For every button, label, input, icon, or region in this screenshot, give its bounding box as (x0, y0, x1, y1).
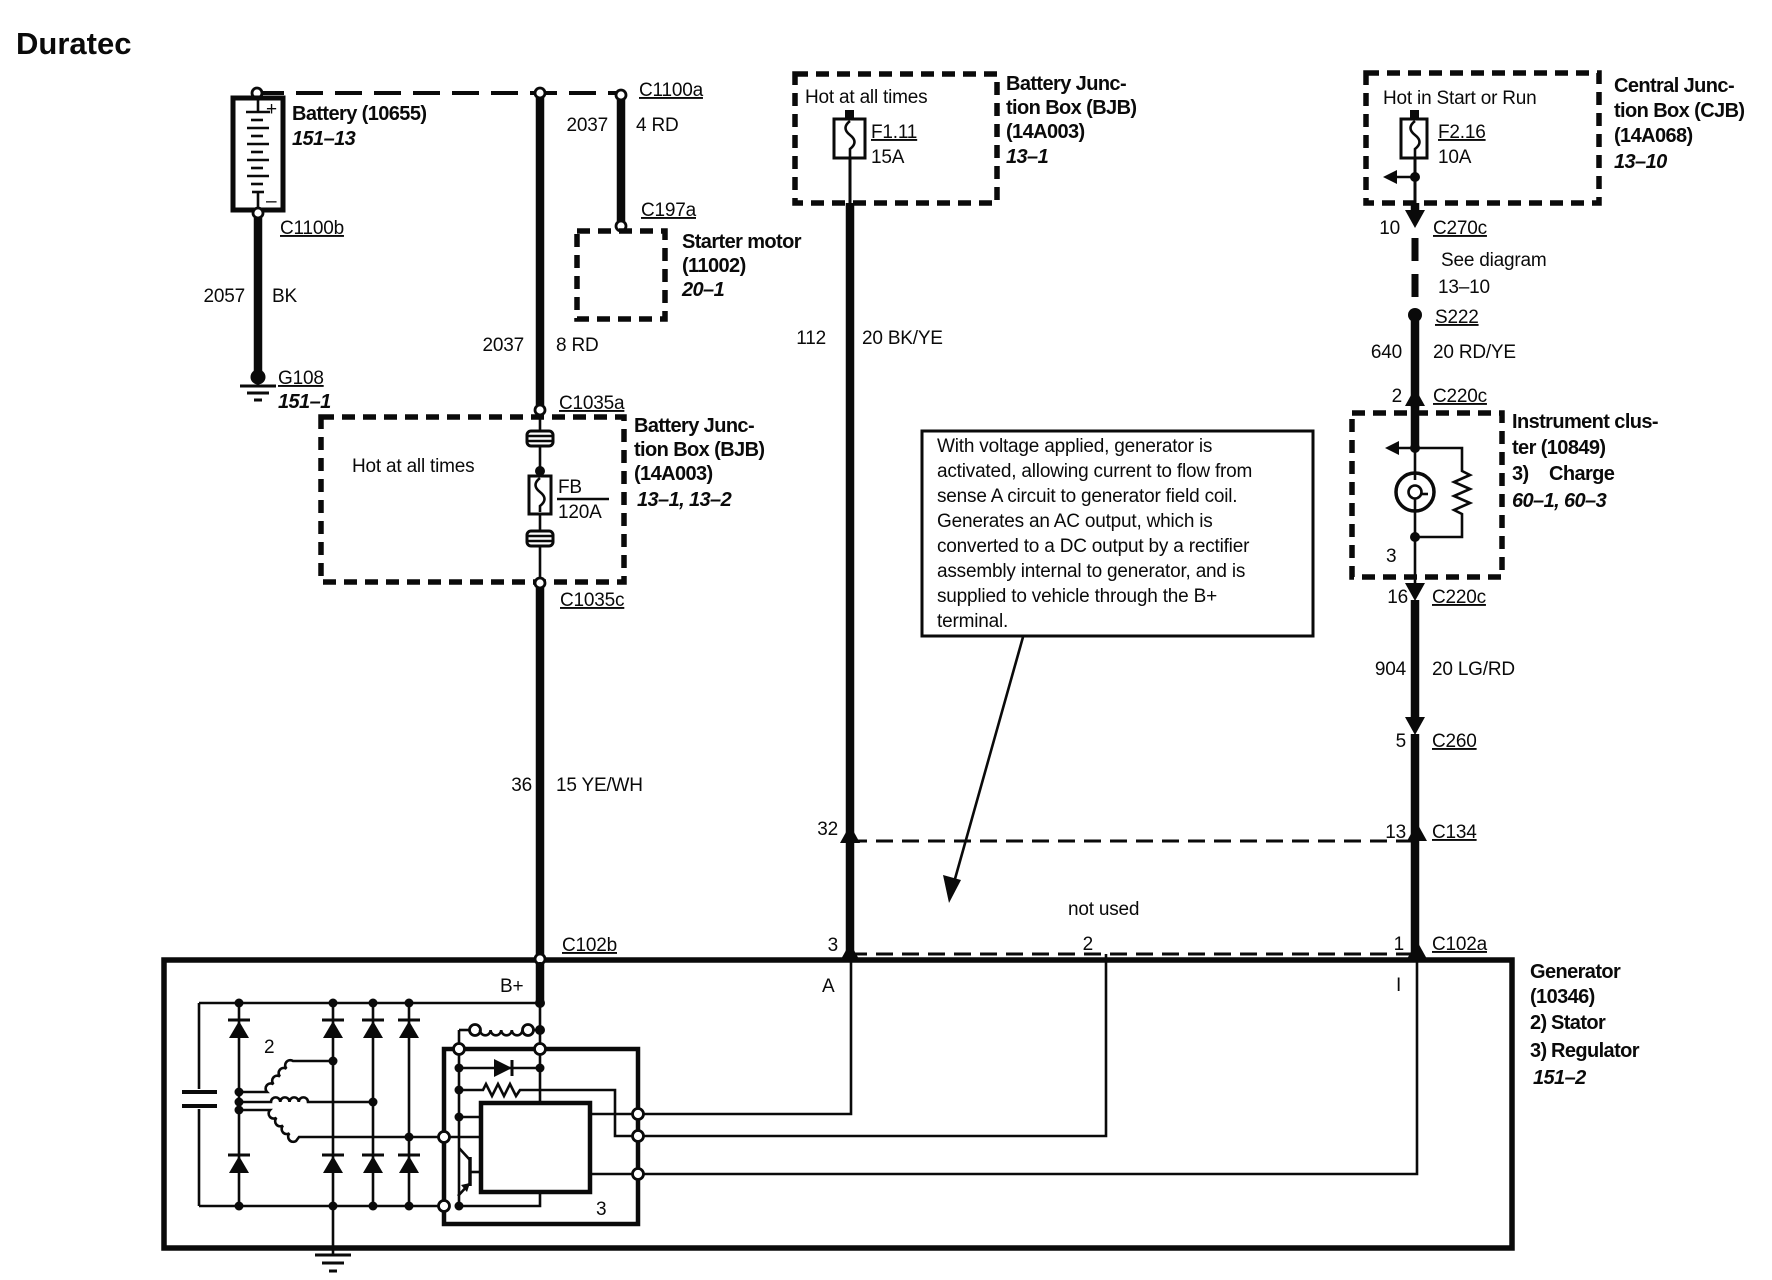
svg-text:C220c: C220c (1432, 587, 1486, 608)
wire: B+ feed from bus down to C1035a, circuit 2037 8 RD (536, 93, 545, 405)
regulator outer box (444, 1049, 638, 1224)
node: C197a terminal (open circle) (616, 221, 626, 231)
wire: F1.11 down to generator A terminal, circuit 112 20 BK/YE (846, 203, 855, 957)
svg-text:151–2: 151–2 (1533, 1067, 1586, 1089)
rectifier diode column 4 (398, 1003, 420, 1206)
svg-text:tion Box (BJB): tion Box (BJB) (1006, 97, 1136, 119)
svg-text:F2.16: F2.16 (1438, 122, 1486, 143)
svg-text:Battery Junc-: Battery Junc- (1006, 73, 1126, 95)
connector arrow at generator A terminal (pin 3) (840, 943, 860, 961)
wire: stator sense into regulator to IC (444, 1136, 481, 1139)
node: IC feed junction (455, 1113, 464, 1122)
svg-text:15A: 15A (871, 147, 905, 168)
connector chevron at pin 32 on A wire (840, 825, 860, 843)
svg-text:2037: 2037 (483, 335, 524, 356)
battery (10655) symbol (233, 98, 283, 212)
svg-text:3: 3 (828, 935, 838, 956)
svg-text:5: 5 (1396, 731, 1406, 752)
node: open circle on regulator top edge (B+) (535, 1044, 546, 1055)
regulator internal diode (459, 1059, 540, 1077)
wire: CJB to C270c with connector arrow (1411, 203, 1420, 212)
wire: B+ vertical inside generator (539, 962, 542, 1103)
node: open circle on regulator left edge (ground) (439, 1201, 450, 1212)
svg-text:2): 2) (1530, 1012, 1547, 1034)
svg-text:ter (10849): ter (10849) (1512, 437, 1605, 459)
svg-text:13–1, 13–2: 13–1, 13–2 (637, 489, 732, 511)
svg-text:20 RD/YE: 20 RD/YE (1433, 342, 1516, 363)
svg-text:tion Box (CJB): tion Box (CJB) (1614, 100, 1744, 122)
node: junction of B+ feed on dashed bus (open circle) (535, 88, 545, 98)
svg-text:G108: G108 (278, 368, 324, 389)
svg-text:1: 1 (1394, 934, 1404, 955)
svg-text:Central Junc-: Central Junc- (1614, 75, 1734, 97)
svg-text:3): 3) (1512, 463, 1529, 485)
battery junction box (BJB) with fuse FB (left) : dashed box (321, 417, 624, 582)
svg-text:Starter motor: Starter motor (682, 231, 802, 253)
svg-text:C1100b: C1100b (280, 218, 344, 239)
svg-text:112: 112 (796, 328, 826, 349)
svg-text:Generator: Generator (1530, 961, 1621, 983)
svg-text:20–1: 20–1 (681, 279, 725, 301)
svg-text:8 RD: 8 RD (556, 335, 599, 356)
svg-text:supplied to vehicle through th: supplied to vehicle through the B+ (937, 586, 1217, 607)
svg-text:C270c: C270c (1433, 218, 1487, 239)
svg-text:151–1: 151–1 (278, 391, 331, 413)
node: square terminal above fuse F2.16 (1410, 110, 1419, 119)
svg-text:tion Box (BJB): tion Box (BJB) (634, 439, 764, 461)
regulator IC box (481, 1103, 590, 1192)
wire: dashed segment "See diagram 13-10" (1412, 238, 1419, 310)
svg-text:BK: BK (272, 286, 297, 307)
connector capsule above fuse FB (527, 431, 553, 446)
svg-text:C102a: C102a (1432, 934, 1488, 955)
node: coil 3 to diode column 4 (405, 1133, 414, 1142)
svg-text:C197a: C197a (641, 200, 697, 221)
rectifier diode column 2 (322, 1003, 344, 1206)
fuse FB 120A (529, 476, 551, 514)
svg-text:Duratec: Duratec (16, 26, 131, 61)
svg-text:151–13: 151–13 (292, 128, 356, 150)
wire: top battery positive dashed bus (257, 91, 621, 95)
svg-text:assembly internal to generator: assembly internal to generator, and is (937, 561, 1245, 582)
wire: C1100a to starter motor, circuit 2037 4 RD (617, 95, 626, 221)
node: splice S222 (1408, 308, 1422, 322)
node: resistor row junction (455, 1086, 464, 1095)
svg-text:10A: 10A (1438, 147, 1472, 168)
wire: lamp down through cluster edge (1414, 537, 1417, 584)
connector capsule below fuse FB (527, 531, 553, 546)
regulator internal resistor (459, 1084, 633, 1136)
svg-text:120A: 120A (558, 502, 602, 523)
node: open circle on regulator top edge (field) (454, 1044, 465, 1055)
node: stator neutral junctions (235, 1088, 244, 1097)
wire: fuse F1.11 to box edge (849, 158, 852, 203)
node: C1100a terminal (open circle) (616, 90, 626, 100)
svg-text:C260: C260 (1432, 731, 1477, 752)
svg-text:FB: FB (558, 477, 582, 498)
svg-text:Battery (10655): Battery (10655) (292, 103, 426, 125)
stator winding coil 2 (middle phase) (239, 1097, 373, 1102)
wire: fuse F2.16 to junction and box edge (1414, 158, 1417, 203)
svg-text:C1035c: C1035c (560, 590, 624, 611)
wire: stub with left arrow inside CJB (1396, 176, 1415, 179)
svg-text:13–10: 13–10 (1438, 277, 1490, 298)
svg-text:C134: C134 (1432, 822, 1477, 843)
connector arrow C220c (pin 2) into instrument cluster (1405, 388, 1425, 406)
wire: C1035c down to generator B+ terminal, circuit 36 15 YE/WH (536, 588, 545, 1001)
stator winding coil 1 (top phase) (239, 1060, 333, 1092)
svg-text:20 BK/YE: 20 BK/YE (862, 328, 943, 349)
central junction box (CJB) with fuse F2.16 : dashed box (1366, 73, 1599, 203)
svg-text:(10346): (10346) (1530, 986, 1595, 1008)
svg-text:C102b: C102b (562, 935, 617, 956)
svg-text:3: 3 (596, 1199, 606, 1220)
svg-text:C220c: C220c (1433, 386, 1487, 407)
node: bottom rail junctions (235, 1202, 244, 1211)
node: dot above fuse FB (535, 466, 545, 476)
node: C102b terminal at generator (open circle) (535, 954, 545, 964)
charge indicator lamp (1396, 448, 1434, 537)
node: C1035c connector (open circle) (535, 578, 545, 588)
wire: C260 down to C134 (1411, 734, 1420, 958)
svg-text:2: 2 (1083, 934, 1093, 955)
wire: internal bottom rail (199, 1205, 444, 1208)
wire: dashed line pin 32 to pin 13 C134 (850, 840, 1415, 843)
svg-text:–: – (266, 191, 277, 212)
svg-text:C1100a: C1100a (639, 80, 704, 101)
svg-text:With voltage applied, generato: With voltage applied, generator is (937, 436, 1212, 457)
rectifier diode column 1 (228, 1003, 250, 1206)
wire: dashed line generator pins 3 / 2 / 1 (850, 953, 1415, 956)
svg-text:F1.11: F1.11 (871, 122, 917, 143)
instrument cluster (10849) dashed box (1352, 413, 1502, 577)
svg-text:2: 2 (1392, 386, 1402, 407)
svg-text:3): 3) (1530, 1040, 1547, 1062)
node: field coil to B+ vertical (535, 1025, 545, 1035)
svg-text:20 LG/RD: 20 LG/RD (1432, 659, 1515, 680)
svg-text:not used: not used (1068, 899, 1139, 920)
node: open circle on regulator right edge (I) (633, 1169, 644, 1180)
node: junction below F2.16 (1410, 172, 1420, 182)
node: top rail junctions (235, 999, 244, 1008)
svg-text:36: 36 (511, 775, 532, 796)
note box: generator operation description (922, 431, 1313, 636)
svg-text:3: 3 (1386, 546, 1396, 567)
svg-text:Instrument clus-: Instrument clus- (1512, 411, 1658, 433)
node: junction at top of charge lamp (1410, 443, 1420, 453)
node: open circle on regulator left edge (stator sense) (439, 1132, 450, 1143)
wire: stub with left arrow inside cluster (1398, 447, 1415, 450)
svg-text:Hot at all times: Hot at all times (352, 456, 474, 477)
node: battery positive terminal (open circle) (252, 88, 262, 98)
rotor field coil (459, 1025, 540, 1049)
svg-text:Generates an AC output, which: Generates an AC output, which is (937, 511, 1213, 532)
svg-text:16: 16 (1387, 587, 1408, 608)
svg-text:10: 10 (1379, 218, 1400, 239)
svg-text:640: 640 (1371, 342, 1402, 363)
svg-text:(14A003): (14A003) (1006, 121, 1085, 143)
svg-text:Hot in Start or Run: Hot in Start or Run (1383, 88, 1537, 109)
wire: regulator A output to A terminal (590, 962, 851, 1114)
svg-text:A: A (822, 976, 835, 997)
svg-text:2057: 2057 (204, 286, 245, 307)
wire: generator internal ground stub (332, 1206, 335, 1254)
starter motor (11002) dashed box (577, 231, 665, 319)
ground symbol below generator (315, 1255, 351, 1271)
svg-text:sense A circuit to generator f: sense A circuit to generator field coil. (937, 486, 1237, 507)
wire: regulator IC top-left feed (459, 1116, 481, 1119)
svg-text:904: 904 (1375, 659, 1407, 680)
wire: internal top rail to B+ (199, 1002, 540, 1005)
stator winding coil 3 (bottom phase) (239, 1110, 444, 1142)
svg-text:Regulator: Regulator (1551, 1040, 1640, 1062)
wire: battery negative to ground, circuit 2057 BK (254, 218, 263, 374)
node: open circle on regulator right edge (stator tap) (633, 1131, 644, 1142)
wire: regulator internal left vertical (458, 1052, 461, 1206)
svg-text:Hot at all times: Hot at all times (805, 87, 927, 108)
wire: capsule to fuse FB (539, 415, 542, 432)
svg-text:See diagram: See diagram (1441, 250, 1547, 271)
generator (10346) box (164, 960, 1512, 1248)
wire: into cluster to junction (1411, 404, 1420, 448)
rectifier diode column 3 (362, 1003, 384, 1206)
svg-text:(11002): (11002) (682, 255, 746, 277)
svg-text:60–1, 60–3: 60–1, 60–3 (1512, 490, 1607, 512)
wire: regulator I line to I terminal (590, 962, 1417, 1174)
wire: pin 2 tick into generator (1105, 954, 1108, 962)
note arrow from note box to "not used" area (953, 637, 1023, 886)
wire: regulator stator tap to terminal 2 (not used) (638, 962, 1106, 1136)
connector arrow at generator I terminal (pin 1) C102a (1407, 941, 1427, 959)
svg-text:+: + (266, 99, 277, 120)
connector arrow C134 (pin 13) (1407, 823, 1427, 841)
node: diode row junctions (455, 1064, 464, 1073)
node: coil 2 to diode column 3 (369, 1098, 378, 1107)
svg-text:converted to a DC output by a: converted to a DC output by a rectifier (937, 536, 1250, 557)
wire: S222 down to C220c, circuit 640 20 RD/YE (1411, 315, 1420, 407)
svg-text:S222: S222 (1435, 307, 1479, 328)
wire: IC bottom stub to ground rail (459, 1192, 540, 1206)
svg-text:15 YE/WH: 15 YE/WH (556, 775, 643, 796)
svg-text:(14A068): (14A068) (1614, 125, 1693, 147)
node: open circle on regulator right edge (A) (633, 1109, 644, 1120)
svg-text:4 RD: 4 RD (636, 115, 679, 136)
svg-text:2037: 2037 (567, 115, 608, 136)
fuse F2.16 10A (1401, 119, 1427, 158)
svg-text:13–1: 13–1 (1006, 146, 1049, 168)
node: square terminal above fuse F1.11 (845, 110, 854, 119)
wire: cluster down to C260, circuit 904 20 LG/RD (1411, 600, 1420, 719)
connector arrow C220c (pin 16) below cluster (1405, 583, 1425, 601)
svg-text:Stator: Stator (1551, 1012, 1606, 1034)
node: C1035a connector (open circle) (535, 405, 545, 415)
svg-text:Charge: Charge (1549, 463, 1615, 485)
svg-text:Battery Junc-: Battery Junc- (634, 415, 754, 437)
resistor in parallel with lamp (1415, 448, 1470, 537)
node: battery negative terminal (open circle) (253, 208, 263, 218)
node: junction at bottom of charge lamp (1410, 532, 1420, 542)
svg-text:32: 32 (817, 819, 838, 840)
svg-text:2: 2 (264, 1037, 274, 1058)
svg-text:13–10: 13–10 (1614, 151, 1667, 173)
capacitor (left) (182, 1003, 217, 1206)
ground G108 (240, 370, 276, 401)
wire: fuse FB to C1035c (539, 514, 542, 532)
node: ground rail junction at transistor emitter (455, 1202, 464, 1211)
transistor Q (field driver) (458, 1148, 481, 1196)
node: coil 1 to diode column 2 (329, 1057, 338, 1066)
svg-text:C1035a: C1035a (559, 393, 625, 414)
svg-text:I: I (1396, 975, 1401, 996)
connector arrow C260 (pin 5) (1405, 717, 1425, 735)
node: junction B+ and top rail (535, 998, 545, 1008)
svg-text:activated, allowing current to: activated, allowing current to flow from (937, 461, 1252, 482)
battery junction box (BJB) with fuse F1.11 : dashed box (795, 74, 997, 203)
svg-text:terminal.: terminal. (937, 611, 1008, 632)
svg-text:B+: B+ (500, 976, 523, 997)
fuse F1.11 15A (834, 119, 865, 158)
svg-text:(14A003): (14A003) (634, 463, 713, 485)
